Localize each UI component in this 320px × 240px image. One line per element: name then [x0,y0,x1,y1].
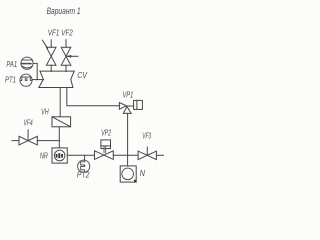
svg-text:VP1: VP1 [123,90,134,99]
svg-text:NR: NR [40,151,48,160]
svg-text:VF1 VF2: VF1 VF2 [48,29,73,38]
svg-text:PA1: PA1 [6,60,17,69]
svg-text:N: N [140,169,145,178]
svg-text:PT2: PT2 [77,171,90,180]
svg-text:VP2: VP2 [101,128,111,137]
svg-text:VF3: VF3 [142,132,151,141]
svg-text:PT1: PT1 [5,76,16,85]
svg-text:VH: VH [41,108,49,117]
svg-text:Вариант 1: Вариант 1 [47,6,81,16]
svg-text:CV: CV [77,71,87,80]
svg-text:VF4: VF4 [24,119,34,128]
